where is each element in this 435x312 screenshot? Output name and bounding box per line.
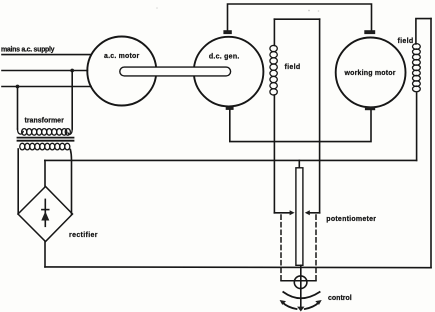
brush tick dc gen bottom [226,107,234,110]
transformer T1 primary left lead [17,87,19,130]
svg-text:a.c. motor: a.c. motor [104,53,140,60]
wiper arrow right pointing left [309,212,320,214]
rectifier diode cathode bar [42,209,49,211]
scan speck [308,10,310,12]
dc generator G1 circle [194,37,264,107]
wire motor field bottom lead [416,93,418,160]
svg-text:d.c. gen.: d.c. gen. [209,54,240,61]
shaft coupling ac motor to dc gen [120,67,231,76]
potentiometer stub from DC line [298,160,300,167]
svg-text:field: field [285,64,301,71]
wire bottom return line [45,266,431,269]
wire rectifier top stub to DC line [44,160,46,186]
wire DC+ line y160 across to motor field [45,159,417,161]
control rotation upper arc [283,292,319,298]
brush tick dc gen top [223,30,231,34]
wire mains line 3 [2,86,91,88]
svg-text:transformer: transformer [25,118,65,125]
control knob circle [294,276,307,289]
dashed link left [280,215,282,281]
wire mains line 1 [2,54,91,56]
svg-text:field: field [398,38,414,45]
wire field bracket y18 [274,18,319,20]
wire top line dc gen to working motor [228,4,372,31]
control shaft vertical [300,265,302,307]
wire rectifier bottom stub [44,242,46,267]
control bar horizontal [281,280,316,282]
ac motor M1 circle [87,37,156,106]
rectifier diode triangle [41,211,49,220]
wiper arrow left pointing right [274,212,291,214]
transformer T1 core bars [18,137,74,139]
wire top right bracket over motor field [416,19,431,44]
rectifier diode wire [44,199,46,226]
motor field coil loops [413,44,421,50]
svg-text:rectifier: rectifier [69,232,98,239]
rectifier D1 diamond [18,187,73,242]
node junction dot on line 3 [16,85,20,89]
control rotation right arrow [305,302,319,309]
control shaft down arrowhead [297,307,304,312]
transformer T1 primary right lead [71,71,73,130]
svg-text:control: control [328,295,352,302]
brush tick working motor bottom [365,107,375,110]
working motor M2 circle [336,38,406,108]
wire vertical B from bracket to wiper arrow [319,19,321,213]
potentiometer body [296,168,303,265]
node junction dot on line 2 [70,69,74,73]
brush tick working motor top [364,30,375,34]
wire gen field bottom lead to wiper arrow (vertical A) [273,95,275,213]
transformer T1 secondary right lead [70,150,71,215]
wire right edge vertical [430,19,432,268]
generator field coil loops [270,45,277,51]
dashed link right [315,215,317,281]
wire mains line 2 [2,70,87,72]
svg-text:potentiometer: potentiometer [326,216,376,223]
wire armature bus dc gen bottom to working motor bottom [230,110,371,142]
transformer T1 secondary left lead [17,149,19,214]
transformer T1 primary winding loops [18,129,24,134]
wire gen field top lead (vertical A top) [273,19,275,45]
transformer T1 secondary winding loops [20,143,25,150]
control rotation left arrow [282,302,296,309]
svg-text:working motor: working motor [344,70,396,77]
svg-text:mains a.c. supply: mains a.c. supply [1,46,55,53]
